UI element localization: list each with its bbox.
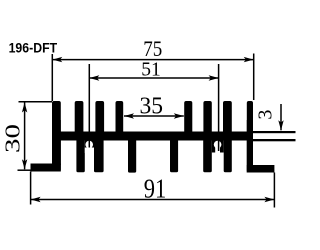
svg-text:75: 75 [143,36,162,61]
dim 91 extension line left [30,172,32,205]
dim 30 line [24,103,26,170]
dim 91 extension line right [273,173,275,208]
upper fin F2 [75,101,84,136]
svg-text:91: 91 [144,174,167,204]
left screw boss shoulders [85,140,94,148]
right thin tab bottom line [253,139,296,141]
dim 51 extension line left [88,64,90,148]
dim 3 arrow down [278,120,283,130]
dim 75 arrow right [244,57,254,62]
left screw channel circle [85,141,93,149]
svg-text:51: 51 [141,59,161,81]
dim 30 top reference line [19,101,53,103]
svg-text:196-DFT: 196-DFT [9,40,58,56]
right screw boss shoulders [212,140,224,153]
dim 35 arrow left [124,113,134,118]
dim 91 arrow left [31,197,41,202]
right screw channel circle [214,141,222,149]
upper fin F7 [223,101,232,136]
left bottom flange [31,164,61,172]
lower fin D [170,138,178,172]
lower fin E [203,138,212,172]
dim 51 arrow right [209,75,219,80]
dim 75 line [52,59,253,61]
dim 51 extension line right [218,64,220,151]
dim 91 arrow right [264,197,274,202]
dim 91 line [31,199,275,201]
dim 35 arrow right [174,113,184,118]
lower fin A [76,138,84,172]
upper fin F3 [95,101,104,136]
dim 51 line [89,77,218,79]
heatsink profile spine [52,132,253,141]
dim 30 bottom reference line [18,169,31,171]
dim 75 extension line left [51,54,53,101]
upper fin F4 [116,101,124,136]
lower fin C [128,138,136,173]
left wall fin [52,101,61,172]
svg-text:35: 35 [139,93,163,120]
dim 75 arrow left [52,57,62,62]
lower fin B [94,138,104,172]
upper fin F6 [203,101,211,136]
right thin tab top line [253,131,296,133]
right bottom flange [247,165,275,173]
right wall fin [247,101,253,173]
dim 75 extension line right [253,54,255,101]
dim 30 arrow up [22,103,27,113]
svg-text:3: 3 [255,110,277,120]
right screw channel slit [215,147,220,153]
dim 35 line [124,115,184,117]
dim 30 arrow down [22,159,27,169]
lower fin F [224,138,232,172]
left screw channel slit [85,148,94,154]
svg-text:30: 30 [1,124,25,153]
upper fin F5 [184,101,192,136]
dim 3 leader line [280,104,282,130]
dim 51 arrow left [89,75,99,80]
